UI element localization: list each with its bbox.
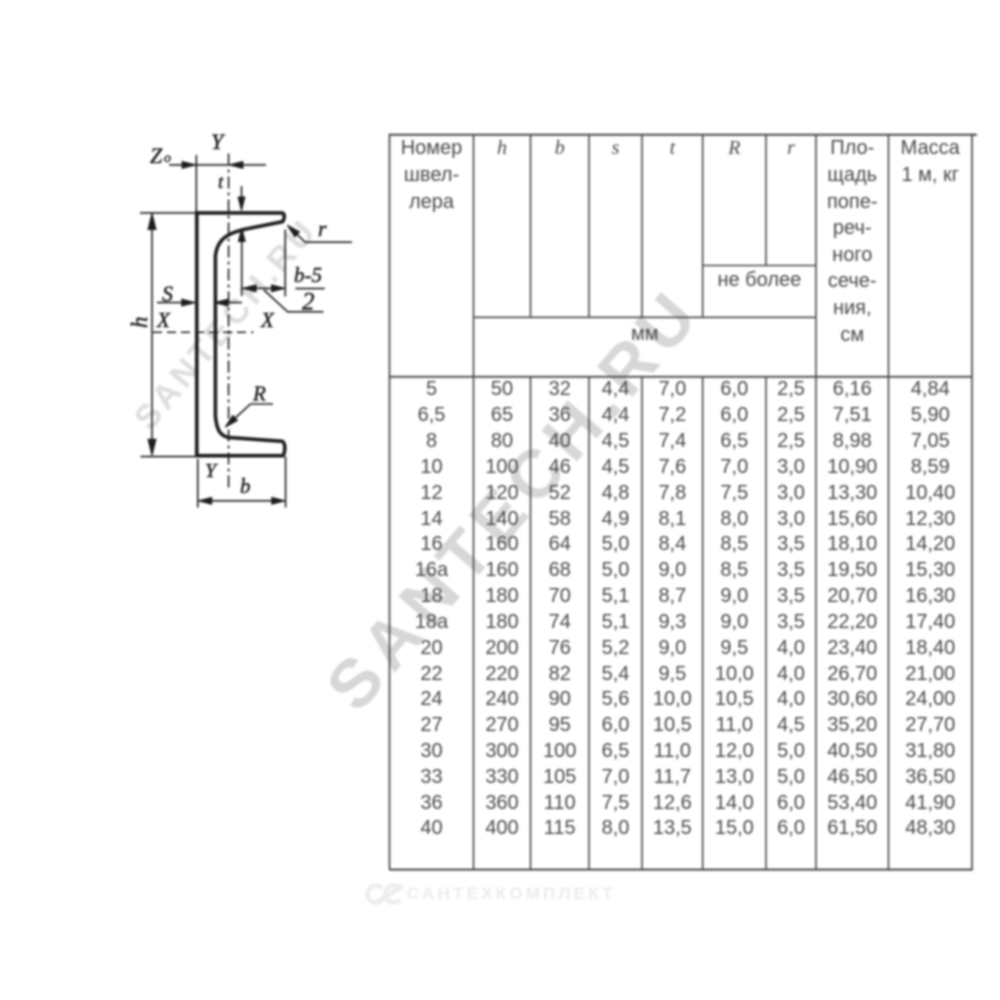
channel outline (flanges and inner profile) [195, 213, 285, 456]
fraction bar [295, 288, 324, 290]
channel outline (web outer) [195, 211, 199, 457]
(b-s)/2 right extension line [284, 230, 286, 297]
b right extension line [285, 457, 287, 508]
web face extension line above flange [195, 155, 197, 211]
Z0 dimension line with arrows [169, 164, 266, 166]
footer logo САНТЕХКОМПЛЕКТ [359, 875, 659, 915]
h bottom extension line [141, 456, 196, 458]
b left extension line [197, 459, 199, 508]
Y axis (vertical dash-dot centerline) [228, 154, 230, 492]
R leader with shelf and arrow [228, 404, 274, 425]
(b-s)/2 dimension line with arrows [243, 287, 284, 289]
S dimension arrows at web [157, 302, 183, 304]
X axis (horizontal dashed line) [153, 331, 254, 333]
t dimension down arrow [241, 186, 243, 198]
b dimension line with arrows [199, 500, 285, 502]
h top extension line [140, 212, 195, 214]
(b-s)/2 leader line [264, 290, 324, 312]
h dimension line with arrows [151, 214, 153, 455]
r leader with shelf and arrow [290, 228, 352, 243]
t dimension up arrow / (b-s)/2 left extension [241, 229, 243, 296]
